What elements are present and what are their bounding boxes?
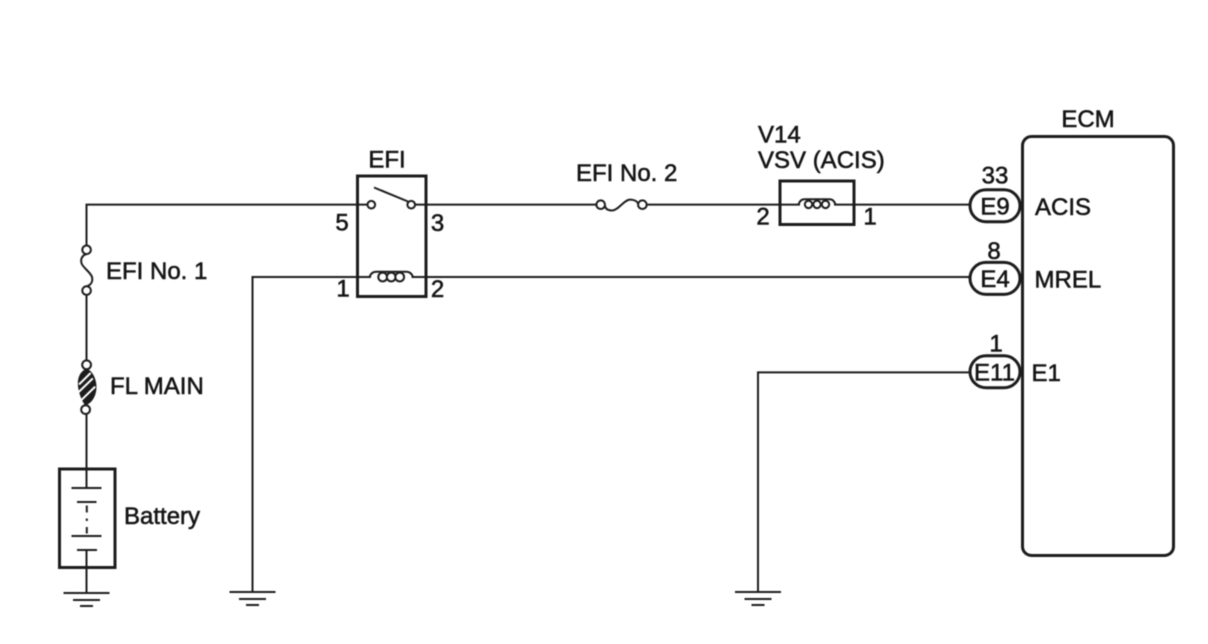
label ACIS — [1035, 194, 1091, 221]
svg-text:EFI No. 2: EFI No. 2 — [576, 160, 677, 187]
VSV V14 box — [780, 181, 854, 225]
svg-text:33: 33 — [982, 163, 1009, 190]
svg-text:8: 8 — [987, 238, 1000, 265]
svg-text:VSV (ACIS): VSV (ACIS) — [758, 147, 885, 174]
relay EFI box — [358, 176, 427, 297]
svg-text:Battery: Battery — [124, 503, 200, 530]
svg-text:5: 5 — [335, 210, 348, 237]
svg-text:2: 2 — [756, 204, 769, 231]
svg-text:EFI No. 1: EFI No. 1 — [106, 258, 207, 285]
label E1 — [1032, 360, 1061, 387]
relay pin 3 — [431, 210, 444, 237]
ECM box — [1023, 137, 1174, 556]
wire: EFI No.2 fuse to VSV coil — [643, 204, 801, 206]
wire: relay pin 3 to EFI No.2 fuse — [412, 204, 602, 206]
ground below relay coil drop — [230, 592, 276, 605]
label FL MAIN — [110, 373, 204, 400]
ground below battery — [64, 593, 110, 606]
pin number 8 — [987, 238, 1000, 265]
label EFI No. 2 — [576, 160, 677, 187]
wire: fuse EFI No.1 to FL MAIN — [86, 291, 88, 365]
wire: relay pin 2 to ECM pin E4 — [412, 276, 970, 278]
svg-text:3: 3 — [431, 210, 444, 237]
relay coil — [370, 272, 414, 282]
svg-text:E11: E11 — [974, 360, 1015, 387]
svg-text:E1: E1 — [1032, 360, 1061, 387]
svg-text:E9: E9 — [980, 194, 1009, 221]
wire: ECM pin E11 across and down to ground — [758, 372, 969, 592]
relay switch blade — [374, 188, 408, 202]
svg-text:FL MAIN: FL MAIN — [110, 373, 204, 400]
relay switch contact circles — [368, 201, 416, 209]
relay pin 2 — [431, 276, 444, 303]
pin number 33 — [982, 163, 1009, 190]
label V14 — [758, 122, 801, 149]
label Battery — [124, 503, 200, 530]
connector pin E9 — [970, 190, 1020, 222]
svg-text:2: 2 — [431, 276, 444, 303]
label EFI No. 1 — [106, 258, 207, 285]
label EFI (relay title) — [368, 147, 405, 174]
VSV coil — [799, 199, 836, 208]
svg-text:ECM: ECM — [1061, 106, 1114, 133]
pin number 1 — [989, 331, 1002, 358]
label ECM — [1061, 106, 1114, 133]
svg-text:E4: E4 — [980, 266, 1009, 293]
svg-text:MREL: MREL — [1035, 267, 1102, 294]
svg-text:1: 1 — [863, 204, 876, 231]
connector pin E4 — [970, 262, 1020, 294]
fuse EFI No.1 — [81, 246, 92, 295]
svg-text:ACIS: ACIS — [1035, 194, 1091, 221]
relay pin 1 — [336, 276, 349, 303]
svg-text:1: 1 — [989, 331, 1002, 358]
wire: battery negative plate to ground — [86, 550, 88, 593]
label MREL — [1035, 267, 1102, 294]
svg-text:EFI: EFI — [368, 147, 405, 174]
label VSV (ACIS) — [758, 147, 885, 174]
wire: VSV coil to ECM pin E9 — [834, 204, 969, 206]
connector pin E11 — [970, 356, 1020, 388]
relay pin 5 — [335, 210, 348, 237]
ground below E1 drop — [735, 592, 781, 605]
fusible link FL MAIN — [78, 360, 97, 414]
VSV pin 2 — [756, 204, 769, 231]
wire: relay pin 1 across and down to ground — [253, 277, 372, 592]
fuse EFI No.2 — [596, 200, 646, 211]
wire: FL MAIN to battery positive plate — [86, 410, 88, 489]
battery — [60, 469, 116, 568]
VSV pin 1 — [863, 204, 876, 231]
wire: battery branch up and across to relay pin 5 — [87, 205, 372, 246]
svg-text:V14: V14 — [758, 122, 801, 149]
svg-text:1: 1 — [336, 276, 349, 303]
